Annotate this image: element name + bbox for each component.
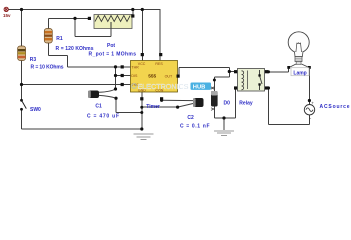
svg-text:C2: C2 <box>187 115 194 121</box>
svg-text:OUT: OUT <box>165 74 173 78</box>
svg-text:15v: 15v <box>3 13 11 18</box>
svg-text:R_pot = 1 MOhms: R_pot = 1 MOhms <box>89 52 137 58</box>
svg-text:R3: R3 <box>30 57 37 63</box>
svg-text:THR: THR <box>131 66 139 70</box>
svg-text:C = 470 uF: C = 470 uF <box>87 114 119 120</box>
svg-text:Relay: Relay <box>239 101 253 107</box>
svg-text:ACSource: ACSource <box>320 104 350 110</box>
svg-text:+: + <box>311 101 314 106</box>
svg-text:R1: R1 <box>56 36 63 42</box>
svg-text:C = 0.1 nF: C = 0.1 nF <box>180 123 210 129</box>
svg-text:ELECTRONICS: ELECTRONICS <box>138 82 189 91</box>
svg-text:SW0: SW0 <box>30 107 41 113</box>
svg-text:DIS: DIS <box>131 74 138 78</box>
svg-text:HUB: HUB <box>193 85 206 91</box>
svg-text:VCC: VCC <box>138 62 146 66</box>
svg-text:D0: D0 <box>224 101 231 107</box>
svg-text:RES: RES <box>155 62 163 66</box>
svg-text:Lamp: Lamp <box>293 70 306 76</box>
svg-text:C1: C1 <box>95 104 102 110</box>
svg-text:Timer: Timer <box>146 104 160 110</box>
svg-text:Pot: Pot <box>107 43 115 49</box>
svg-text:555: 555 <box>148 73 156 78</box>
svg-text:R = 10 KOhms: R = 10 KOhms <box>31 65 64 71</box>
